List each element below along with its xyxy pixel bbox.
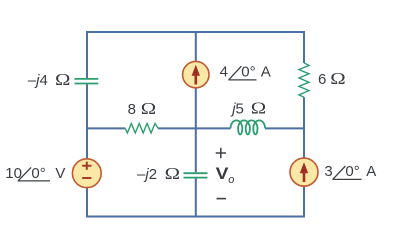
current source 4A circle: [183, 61, 209, 87]
svg-text:8: 8: [128, 101, 136, 118]
svg-text:A: A: [261, 64, 271, 81]
wire bottom: [87, 216, 304, 218]
label plus Vo minus: [216, 148, 235, 199]
wire top: [87, 31, 304, 33]
svg-text:A: A: [366, 163, 376, 180]
capacitor -j4 ohm: [75, 79, 99, 84]
svg-text:Ω: Ω: [55, 71, 70, 90]
current source 3A arrow: [303, 172, 306, 183]
inductor j5 ohm: [231, 120, 266, 134]
wire left vertical: [86, 31, 88, 218]
svg-text:4: 4: [220, 64, 228, 81]
label 4 angle 0 A: [220, 64, 271, 81]
voltage source plus: [82, 162, 91, 170]
svg-text:Ω: Ω: [141, 100, 156, 119]
svg-text:6: 6: [318, 71, 326, 88]
svg-text:0°: 0°: [241, 64, 255, 81]
svg-text:V: V: [55, 165, 65, 182]
voltage source 10V circle: [72, 159, 101, 188]
svg-text:Ω: Ω: [251, 99, 266, 118]
svg-text:3: 3: [324, 163, 332, 180]
svg-text:–j4: –j4: [28, 72, 48, 89]
resistor 8 ohm: [125, 124, 158, 133]
wire middle vertical: [195, 31, 197, 218]
voltage source minus: [82, 177, 91, 179]
capacitor -j2 ohm: [184, 173, 208, 177]
svg-text:0°: 0°: [31, 165, 45, 182]
wire middle horizontal: [86, 127, 305, 129]
current source 3A circle: [290, 158, 318, 186]
current source 4A arrow: [195, 74, 198, 85]
svg-text:o: o: [228, 174, 234, 186]
svg-text:Ω: Ω: [330, 70, 345, 89]
svg-text:–j2: –j2: [137, 166, 157, 183]
svg-text:V: V: [216, 164, 229, 182]
svg-text:0°: 0°: [345, 163, 359, 180]
svg-text:Ω: Ω: [165, 165, 180, 184]
wire right vertical: [303, 31, 305, 218]
svg-text:j5: j5: [230, 100, 244, 117]
label 10 angle 0 V: [5, 165, 65, 182]
label 3 angle 0 A: [324, 163, 376, 180]
resistor 6 ohm: [299, 63, 309, 97]
